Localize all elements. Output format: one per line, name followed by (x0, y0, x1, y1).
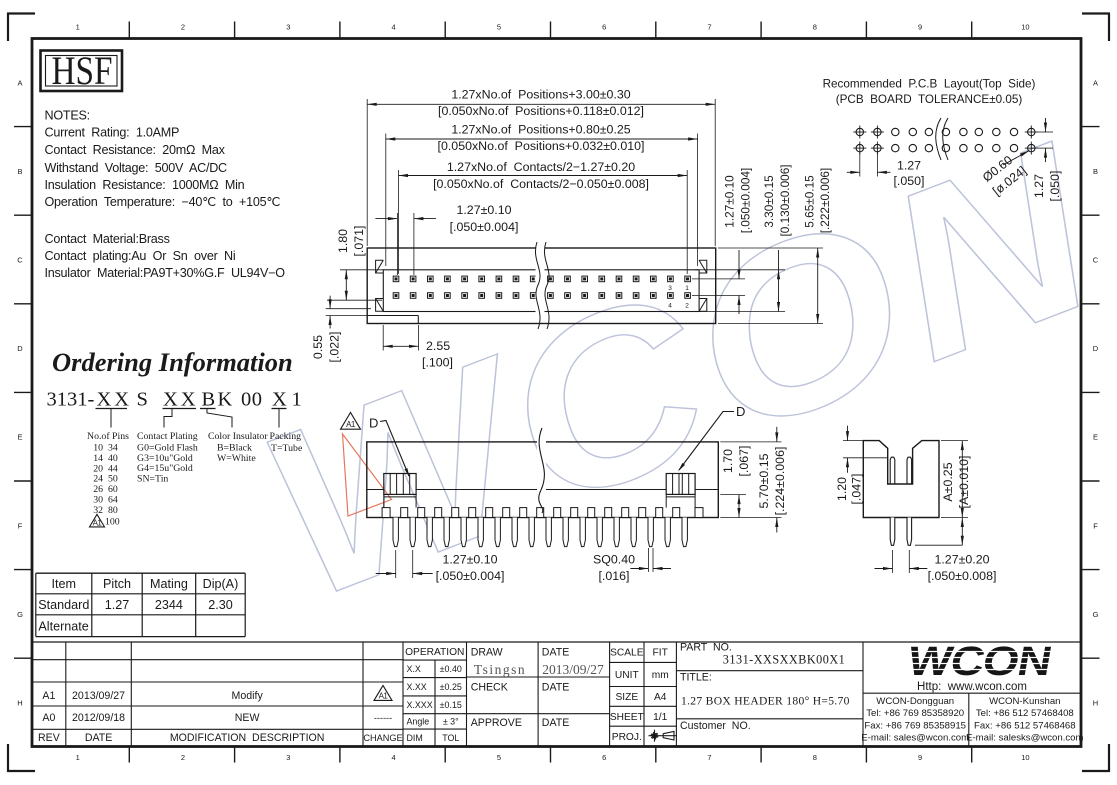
svg-text:DRAW: DRAW (471, 647, 503, 659)
svg-text:Customer NO.: Customer NO. (680, 720, 751, 732)
svg-text:D: D (369, 416, 378, 431)
svg-text:E-mail: salesks@wcon.com: E-mail: salesks@wcon.com (966, 733, 1083, 744)
svg-text:APPROVE: APPROVE (471, 717, 522, 729)
svg-text:10: 10 (1021, 23, 1029, 32)
svg-text:H: H (1093, 699, 1098, 708)
svg-text:A1: A1 (93, 518, 103, 527)
svg-text:1.27 BOX HEADER 180° H=5.70: 1.27 BOX HEADER 180° H=5.70 (681, 695, 850, 708)
svg-text:[.222±0.006]: [.222±0.006] (818, 168, 832, 234)
svg-text:G: G (17, 610, 23, 619)
svg-text:A: A (1093, 78, 1098, 87)
svg-text:2: 2 (685, 303, 689, 310)
svg-text:DIM: DIM (407, 733, 423, 743)
svg-text:XX: XX (97, 389, 133, 411)
projection symbol (649, 730, 677, 742)
frame: top and bottom column ticks (128, 22, 130, 38)
svg-text:DATE: DATE (542, 717, 569, 729)
dim: 1.27xNo.of Positions+0.80 (inner) (385, 134, 387, 267)
svg-text:1: 1 (76, 23, 80, 32)
dim: pin length below (side) (915, 544, 962, 546)
top view break lines (536, 246, 545, 323)
svg-text:Current Rating: 1.0AMP: Current Rating: 1.0AMP (45, 126, 180, 140)
svg-text:Contact Plating: Contact Plating (137, 431, 198, 442)
svg-text:± 3°: ± 3° (443, 717, 459, 727)
svg-text:mm: mm (652, 670, 669, 681)
part no / title / customer block (676, 670, 863, 672)
svg-text:XX: XX (163, 389, 199, 411)
svg-text:NEW: NEW (235, 712, 260, 724)
svg-text:±0.25: ±0.25 (440, 682, 462, 692)
svg-text:CHANGE: CHANGE (363, 733, 402, 743)
svg-text:3: 3 (286, 753, 290, 762)
svg-text:------: ------ (374, 713, 392, 723)
svg-text:[.047]: [.047] (850, 473, 864, 504)
svg-text:C: C (17, 256, 23, 265)
operation tolerance table (403, 659, 467, 661)
svg-text:2013/09/27: 2013/09/27 (72, 690, 125, 702)
svg-text:8: 8 (813, 23, 817, 32)
svg-text:1: 1 (76, 753, 80, 762)
svg-text:T=Tube: T=Tube (271, 443, 303, 454)
svg-text:SN=Tin: SN=Tin (137, 473, 168, 484)
svg-text:Item: Item (52, 577, 77, 591)
svg-text:[.016]: [.016] (598, 569, 629, 583)
svg-text:5.65±0.15: 5.65±0.15 (802, 175, 816, 228)
svg-text:1.70: 1.70 (721, 449, 735, 473)
svg-text:SCALE: SCALE (610, 648, 644, 659)
svg-text:F: F (18, 521, 23, 530)
svg-text:1: 1 (292, 389, 302, 411)
svg-text:REV: REV (38, 732, 61, 744)
dim: 1.20 pin recess (side left) (843, 440, 879, 442)
svg-text:Packing: Packing (270, 431, 302, 442)
svg-text:B: B (1093, 167, 1098, 176)
svg-text:3131-XXSXXBK00X1: 3131-XXSXXBK00X1 (723, 653, 845, 667)
svg-text:[0.050xNo.of Contacts/2−0.050: [0.050xNo.of Contacts/2−0.050±0.008] (433, 177, 649, 191)
svg-text:CHECK: CHECK (471, 682, 508, 694)
svg-text:[.071]: [.071] (352, 225, 366, 256)
svg-text:50: 50 (108, 474, 118, 485)
svg-text:2344: 2344 (155, 598, 183, 612)
dim: 1.70 latch (front right) (720, 494, 746, 496)
svg-text:0.55: 0.55 (311, 335, 325, 359)
svg-text:40: 40 (108, 453, 118, 464)
svg-text:3: 3 (286, 23, 290, 32)
dim: 5.65 (right overall) (718, 247, 823, 249)
front view pins (393, 518, 687, 547)
svg-text:2.55: 2.55 (426, 339, 450, 353)
svg-text:7: 7 (707, 23, 711, 32)
svg-text:A±0.25: A±0.25 (941, 462, 955, 501)
svg-text:[.050]: [.050] (893, 174, 924, 188)
dim: PCB 1.27 row pitch (right) (1037, 131, 1053, 133)
side view pins (890, 457, 895, 484)
svg-text:Fax: +86 512 57468468: Fax: +86 512 57468468 (974, 720, 1076, 731)
svg-text:[.224±0.006]: [.224±0.006] (773, 447, 787, 516)
title block outline (32, 641, 1081, 643)
svg-text:Operation Temperature: −40℃: Operation Temperature: −40℃ to +105℃ (45, 195, 281, 209)
svg-text:Recommended P.C.B Layout(Top: Recommended P.C.B Layout(Top Side) (823, 78, 1036, 91)
svg-text:Modify: Modify (232, 690, 264, 702)
svg-text:2013/09/27: 2013/09/27 (542, 662, 604, 677)
dim: 2.55 (bottom) (382, 325, 384, 351)
svg-text:Tel: +86 512 57468408: Tel: +86 512 57468408 (976, 708, 1074, 719)
svg-text:10: 10 (1021, 753, 1029, 762)
dim: 1.27 pin pitch (side bottom) (892, 550, 894, 573)
dim: front 1.27 pin pitch (395, 550, 397, 578)
svg-text:Http: www.wcon.com: Http: www.wcon.com (917, 681, 1027, 693)
svg-text:20: 20 (93, 463, 103, 474)
svg-text:1.27xNo.of Contacts/2−1.27±0.: 1.27xNo.of Contacts/2−1.27±0.20 (447, 160, 635, 174)
spec table (36, 572, 245, 574)
svg-text:6: 6 (602, 23, 606, 32)
svg-text:X: X (272, 389, 287, 411)
svg-text:[0.130±0.006]: [0.130±0.006] (778, 164, 792, 236)
svg-text:±0.40: ±0.40 (440, 664, 462, 674)
svg-text:2.30: 2.30 (208, 598, 233, 612)
svg-text:4: 4 (668, 303, 672, 310)
svg-text:2: 2 (181, 753, 185, 762)
svg-text:Contact Material:Brass: Contact Material:Brass (45, 232, 170, 246)
svg-text:[.050±0.004]: [.050±0.004] (450, 220, 519, 234)
svg-text:26: 26 (93, 484, 103, 495)
svg-text:D: D (736, 404, 745, 419)
svg-text:Contact Resistance: 20mΩ Ma: Contact Resistance: 20mΩ Max (45, 143, 226, 157)
svg-text:Mating: Mating (150, 577, 188, 591)
svg-text:Ordering Information: Ordering Information (52, 347, 293, 377)
svg-text:8: 8 (813, 753, 817, 762)
svg-text:X.X: X.X (407, 664, 421, 674)
svg-text:[.022]: [.022] (328, 331, 342, 362)
svg-text:A4: A4 (654, 692, 667, 703)
dim: PCB hole dia 0.60 leader (1003, 151, 1029, 165)
draw/check/approve block (537, 642, 539, 747)
svg-text:5.70±0.15: 5.70±0.15 (757, 453, 771, 508)
svg-text:3.30±0.15: 3.30±0.15 (762, 175, 776, 228)
svg-text:FIT: FIT (653, 648, 668, 659)
top view bottom notch ledge (367, 315, 418, 317)
svg-text:1.27: 1.27 (105, 598, 130, 612)
PCB layout break arcs (937, 122, 942, 158)
svg-text:Standard: Standard (38, 598, 89, 612)
svg-text:1.27±0.10: 1.27±0.10 (723, 175, 737, 228)
svg-text:DATE: DATE (542, 682, 569, 694)
svg-text:X.XXX: X.XXX (407, 700, 433, 710)
svg-text:TOL: TOL (442, 733, 459, 743)
svg-text:F: F (1093, 521, 1098, 530)
svg-text:6: 6 (602, 753, 606, 762)
svg-text:DATE: DATE (85, 732, 112, 744)
PCB layout hole pattern (853, 126, 1038, 155)
dim: 5.70 height (front right) (720, 441, 781, 443)
svg-text:OPERATION: OPERATION (405, 647, 464, 658)
front view bottom notches (382, 508, 703, 518)
svg-text:[.050±0.004]: [.050±0.004] (436, 569, 505, 583)
svg-text:WCON: WCON (904, 639, 1054, 685)
side view body outline (863, 441, 939, 518)
svg-text:DATE: DATE (542, 647, 569, 659)
svg-text:3131-: 3131- (47, 389, 95, 411)
svg-text:100: 100 (105, 517, 120, 528)
svg-text:1.27xNo.of Positions+0.80±0.2: 1.27xNo.of Positions+0.80±0.25 (451, 122, 630, 136)
front view break line (537, 439, 546, 507)
svg-text:4: 4 (392, 753, 396, 762)
svg-text:64: 64 (108, 495, 118, 506)
svg-text:Color Insulator: Color Insulator (208, 431, 268, 442)
svg-text:B: B (202, 389, 216, 411)
svg-text:TITLE:: TITLE: (680, 672, 712, 684)
svg-text:[0.050xNo.of Positions+0.032±: [0.050xNo.of Positions+0.032±0.010] (438, 139, 645, 153)
svg-text:[.050±0.004]: [.050±0.004] (739, 168, 753, 234)
svg-text:[A±0.010]: [A±0.010] (957, 456, 971, 509)
svg-text:3: 3 (668, 285, 672, 292)
part number leader lines (110, 409, 112, 428)
svg-text:24: 24 (93, 474, 103, 485)
dim: A body height (side right) (961, 441, 963, 518)
svg-text:5: 5 (497, 753, 501, 762)
dim: 1.27xNo.of Positions+3.00 (overall) (366, 99, 368, 246)
svg-text:34: 34 (108, 443, 118, 454)
svg-text:14: 14 (93, 453, 103, 464)
svg-text:Alternate: Alternate (38, 620, 88, 634)
svg-text:1.27±0.10: 1.27±0.10 (442, 553, 497, 567)
svg-text:Insulator Material:PA9T+30%G.: Insulator Material:PA9T+30%G.F UL94V−O (45, 266, 286, 280)
svg-text:10: 10 (93, 443, 103, 454)
svg-text:1.27xNo.of Positions+3.00±0.3: 1.27xNo.of Positions+3.00±0.30 (451, 88, 630, 102)
svg-text:SIZE: SIZE (615, 692, 638, 703)
sheet frame: corner trim marks (7, 12, 35, 14)
svg-text:W=White: W=White (217, 453, 256, 464)
svg-text:Insulation Resistance: 1000M: Insulation Resistance: 1000MΩ Min (45, 178, 245, 192)
svg-text:(PCB BOARD TOLERANCE±0.05): (PCB BOARD TOLERANCE±0.05) (836, 93, 1023, 106)
svg-text:7: 7 (707, 753, 711, 762)
dim: 1.27 row pitch (right of top view) (692, 278, 745, 280)
svg-text:A1: A1 (346, 420, 356, 429)
frame: left/right row ticks and letters (14, 126, 32, 128)
top view contact pins grid (393, 276, 690, 298)
front view face step line (367, 489, 384, 491)
svg-text:X.XX: X.XX (407, 682, 427, 692)
HSF logo box (41, 51, 123, 92)
dim: 1.27xNo.of Contacts/2-1.27 (398, 170, 400, 274)
svg-text:WCON-Dongguan: WCON-Dongguan (876, 696, 954, 707)
svg-text:[0.050xNo.of Positions+0.118±: [0.050xNo.of Positions+0.118±0.012] (438, 104, 644, 118)
svg-text:[.100]: [.100] (422, 356, 453, 370)
svg-text:1.20: 1.20 (835, 477, 849, 501)
svg-text:2012/09/18: 2012/09/18 (72, 712, 125, 724)
svg-text:NOTES:: NOTES: (45, 108, 90, 122)
svg-text:A1: A1 (379, 692, 389, 701)
svg-text:1.27±0.10: 1.27±0.10 (456, 203, 511, 217)
svg-text:Fax: +86 769 85358915: Fax: +86 769 85358915 (864, 720, 966, 731)
svg-text:E: E (1093, 433, 1098, 442)
svg-text:B: B (17, 167, 22, 176)
svg-text:Tsingsn: Tsingsn (474, 662, 526, 677)
red triangle watermark (343, 434, 392, 516)
warning triangle A1 (front view) (341, 413, 361, 430)
svg-text:2: 2 (181, 23, 185, 32)
revision table (32, 659, 403, 661)
svg-text:UNIT: UNIT (615, 670, 639, 681)
svg-text:Dip(A): Dip(A) (203, 577, 239, 591)
svg-text:1/1: 1/1 (653, 712, 667, 723)
dim: SQ0.40 pin (647, 548, 649, 572)
svg-text:A: A (17, 78, 22, 87)
svg-text:D: D (17, 344, 23, 353)
top view outer body (367, 248, 716, 324)
svg-text:1.80: 1.80 (336, 229, 350, 253)
svg-text:[.050±0.008]: [.050±0.008] (928, 569, 997, 583)
svg-text:Pitch: Pitch (103, 577, 131, 591)
svg-text:5: 5 (497, 23, 501, 32)
scale/unit/size/sheet/proj block (610, 661, 677, 663)
front view left latch block (384, 474, 416, 495)
svg-text:44: 44 (108, 463, 118, 474)
svg-text:K: K (218, 389, 233, 411)
svg-text:9: 9 (918, 753, 922, 762)
dim: 1.27 pitch (396, 213, 398, 275)
svg-text:30: 30 (93, 495, 103, 506)
svg-text:G: G (1093, 610, 1099, 619)
svg-text:±0.15: ±0.15 (440, 700, 462, 710)
WCON logo (904, 639, 1054, 685)
front view body outline (367, 442, 719, 518)
warning triangle in change column (374, 685, 392, 700)
svg-text:80: 80 (108, 505, 118, 516)
svg-text:32: 32 (93, 505, 103, 516)
svg-text:1.27: 1.27 (897, 158, 921, 172)
dim: PCB 1.27 pitch (859, 152, 861, 177)
svg-text:No.of Pins: No.of Pins (87, 431, 129, 442)
svg-text:E: E (17, 433, 22, 442)
top view corner chamfer tabs (376, 260, 384, 273)
svg-text:SHEET: SHEET (610, 712, 644, 723)
top view inner cavity (383, 270, 699, 312)
svg-text:Angle: Angle (407, 717, 430, 727)
svg-text:1: 1 (685, 285, 689, 292)
svg-text:A1: A1 (42, 690, 55, 702)
dim: 1.80 row offset (left) (340, 269, 383, 271)
svg-text:MODIFICATION DESCRIPTION: MODIFICATION DESCRIPTION (170, 732, 325, 744)
svg-text:E-mail: sales@wcon.com: E-mail: sales@wcon.com (861, 733, 969, 744)
svg-text:Withstand Voltage: 500V AC/: Withstand Voltage: 500V AC/DC (45, 161, 228, 175)
svg-text:S: S (137, 389, 148, 411)
svg-text:00: 00 (241, 389, 263, 411)
dim: 3.30 (right) (695, 269, 785, 271)
svg-text:PROJ.: PROJ. (612, 732, 642, 743)
svg-text:60: 60 (108, 484, 118, 495)
svg-text:H: H (17, 699, 22, 708)
svg-text:[.050]: [.050] (1048, 170, 1062, 201)
svg-text:1.27±0.20: 1.27±0.20 (934, 553, 989, 567)
dim: 0.55 (left bottom) (326, 308, 371, 310)
svg-text:[.067]: [.067] (737, 445, 751, 476)
svg-text:SQ0.40: SQ0.40 (593, 553, 635, 567)
svg-text:WCON-Kunshan: WCON-Kunshan (989, 696, 1060, 707)
svg-text:Tel: +86 769 85358920: Tel: +86 769 85358920 (866, 708, 964, 719)
svg-text:9: 9 (918, 23, 922, 32)
svg-text:1.27: 1.27 (1032, 174, 1046, 198)
svg-text:A0: A0 (42, 712, 55, 724)
svg-text:HSF: HSF (52, 48, 113, 93)
svg-text:Contact plating:Au Or Sn o: Contact plating:Au Or Sn over Ni (45, 249, 236, 263)
svg-text:4: 4 (392, 23, 396, 32)
